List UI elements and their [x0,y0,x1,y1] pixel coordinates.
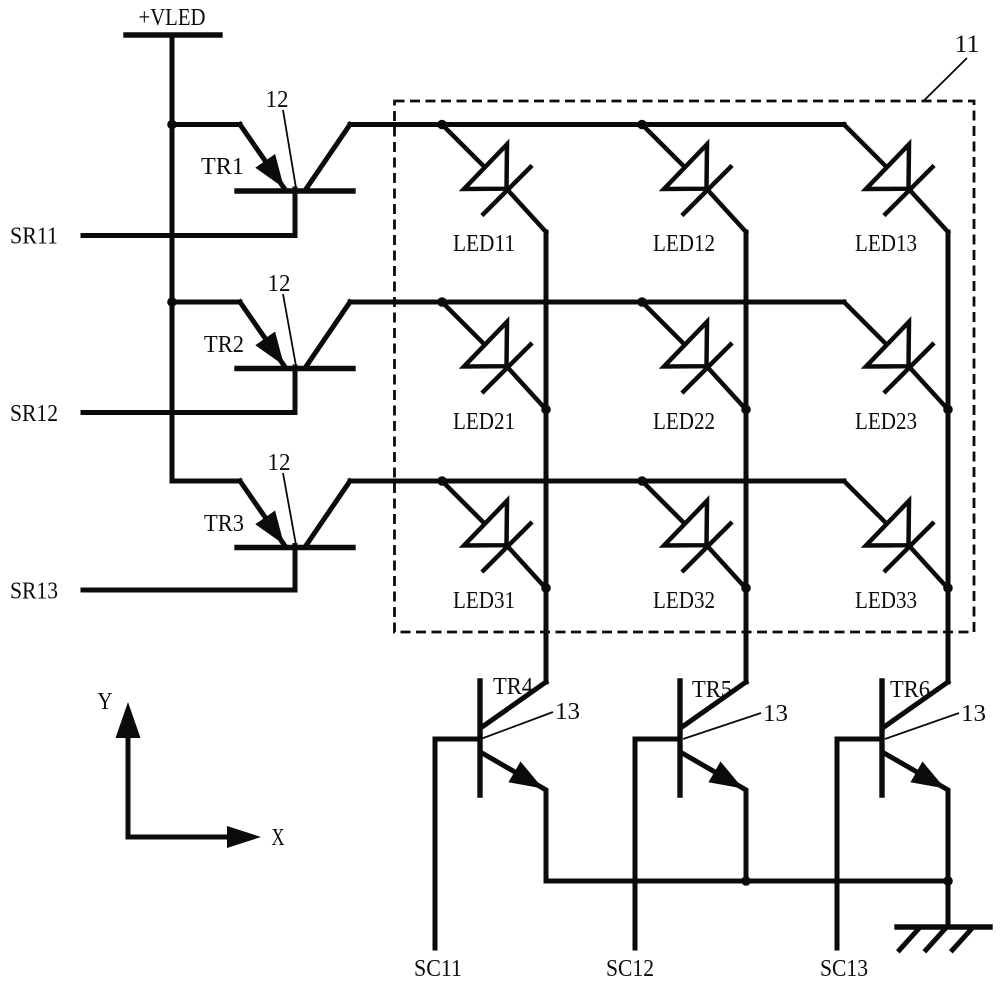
svg-text:12: 12 [268,270,291,297]
svg-text:TR2: TR2 [204,331,244,358]
node col1/LED31 junction [541,583,551,593]
svg-text:11: 11 [955,31,980,58]
wire SR12 input line [83,410,295,415]
Y axis arrow [116,702,141,837]
wire emitter common rail [546,879,948,884]
LED LED11 diode [442,125,546,233]
wire TR1 emitter branch [172,122,240,127]
LED LED12 diode [642,125,746,233]
node col2/LED22 junction [741,405,751,415]
leader line 13 to TR5 [683,713,761,739]
transistor TR6 (NPN column driver) [882,681,948,881]
node row3/LED31 junction [437,476,447,486]
wire column 2 vertical [744,232,749,682]
leader line 12 to TR2 [283,294,296,366]
svg-text:SR12: SR12 [10,400,58,427]
node col1/LED21 junction [541,405,551,415]
wire TR5 base lead and SC12 column [635,739,680,948]
wire TR3 base drop [293,546,298,591]
svg-text:TR1: TR1 [201,153,244,180]
wire TR6 base lead and SC13 column [837,739,882,948]
node col3/LED33 junction [943,583,953,593]
node rail/TR1 junction [167,120,177,130]
transistor TR4 (NPN column driver) [480,681,546,881]
wire TR1 base drop [293,189,298,236]
node col3/LED23 junction [943,405,953,415]
svg-text:LED21: LED21 [453,408,515,435]
wire TR4 base lead and SC11 column [435,739,480,948]
node rail/ground junction [943,876,953,886]
svg-text:SC12: SC12 [606,955,654,982]
transistor TR2 (PNP row driver) [237,302,353,369]
svg-text:LED13: LED13 [855,230,917,257]
wire SR11 input line [83,233,295,238]
node rail/TR5 emitter junction [741,876,751,886]
leader line 13 to TR4 [482,712,553,739]
svg-text:LED31: LED31 [453,587,515,614]
svg-text:TR3: TR3 [204,510,244,537]
svg-text:LED12: LED12 [653,230,715,257]
wire row 3 [350,479,844,484]
leader line 13 to TR6 [885,713,959,739]
LED LED32 diode [642,481,746,589]
power rail +VLED bar [126,32,220,37]
transistor TR3 (PNP row driver) [237,481,353,548]
wire TR2 emitter branch [172,300,240,305]
svg-text:LED11: LED11 [453,230,515,257]
svg-text:SR13: SR13 [10,578,58,605]
ground [897,927,990,950]
X axis arrow [128,826,261,848]
svg-text:+VLED: +VLED [139,4,206,31]
svg-text:LED23: LED23 [855,408,917,435]
svg-text:TR4: TR4 [493,673,533,700]
LED LED22 diode [642,302,746,410]
wire VLED vertical rail [170,35,175,481]
wire column 3 vertical [946,232,951,682]
svg-text:13: 13 [961,700,986,727]
svg-text:13: 13 [555,698,580,725]
node row3/LED32 junction [637,476,647,486]
LED LED23 diode [844,302,948,410]
wire TR2 base drop [293,367,298,413]
node rail/TR2 junction [167,297,177,307]
wire column 1 vertical [544,232,549,682]
LED LED13 diode [844,125,948,233]
svg-text:LED22: LED22 [653,408,715,435]
svg-text:SC13: SC13 [820,955,868,982]
svg-text:LED32: LED32 [653,587,715,614]
wire row 1 [350,122,844,127]
wire row 2 [350,300,844,305]
node row2/LED21 junction [437,297,447,307]
leader line 12 to TR1 [283,110,296,188]
LED LED31 diode [442,481,546,589]
leader line 12 to TR3 [283,473,296,545]
LED LED21 diode [442,302,546,410]
svg-text:13: 13 [763,700,788,727]
node row1/LED12 junction [637,120,647,130]
svg-text:SC11: SC11 [414,955,462,982]
svg-text:SR11: SR11 [10,223,58,250]
svg-text:LED33: LED33 [855,587,917,614]
node col2/LED32 junction [741,583,751,593]
node 11 dashed matrix box [395,101,975,632]
svg-text:TR6: TR6 [890,676,930,703]
svg-text:12: 12 [268,449,291,476]
wire SR13 input line [83,588,295,593]
svg-text:TR5: TR5 [692,676,732,703]
svg-text:12: 12 [266,86,289,113]
wire ground drop [946,881,951,927]
svg-text:Y: Y [98,688,113,715]
transistor TR1 (PNP row driver) [237,125,353,192]
transistor TR5 (NPN column driver) [680,681,746,881]
LED LED33 diode [844,481,948,589]
svg-text:X: X [272,824,285,851]
node row1/LED11 junction [437,120,447,130]
leader line 11 to dashed box [923,58,967,102]
node row2/LED22 junction [637,297,647,307]
wire TR3 emitter branch [172,479,240,484]
